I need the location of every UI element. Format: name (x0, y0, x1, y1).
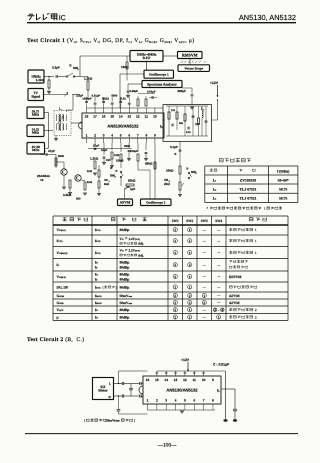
svg-text:80dBμ: 80dBμ (120, 315, 130, 319)
svg-text:3.3kΩ: 3.3kΩ (63, 193, 72, 197)
svg-text:1: 1 (264, 206, 266, 210)
svg-text:8: 8 (212, 399, 214, 403)
svg-text:10pF: 10pF (101, 149, 108, 152)
svg-text:68kΩ: 68kΩ (145, 162, 153, 166)
svg-text:+: + (44, 150, 46, 154)
svg-text:7: 7 (137, 134, 139, 138)
svg-text:1: 1 (189, 308, 191, 312)
svg-text:*: * (207, 207, 209, 211)
svg-text:16: 16 (102, 115, 106, 119)
svg-text:SCTL: SCTL (57, 239, 64, 243)
svg-text:3.9k: 3.9k (114, 154, 120, 157)
svg-text:ZV105329: ZV105329 (240, 178, 256, 182)
svg-text:2: 2 (156, 399, 158, 403)
svg-text:MHz: MHz (32, 131, 40, 135)
svg-text:4: 4 (221, 308, 223, 312)
svg-text:—: — (202, 228, 207, 232)
svg-text:Oscilloscope 2: Oscilloscope 2 (146, 200, 166, 204)
svg-text:(P-P): (P-P) (135, 238, 140, 241)
svg-text:2: 2 (189, 263, 191, 267)
svg-text:0.01: 0.01 (121, 98, 127, 101)
svg-text:2kΩ: 2kΩ (164, 182, 170, 186)
svg-text:AFVM: AFVM (229, 294, 240, 298)
svg-text:2: 2 (189, 301, 191, 305)
svg-text:—: — (216, 285, 221, 289)
svg-text:B.P.F: B.P.F (143, 56, 151, 60)
svg-text:DG, DP: DG, DP (57, 285, 70, 289)
svg-text:1: 1 (62, 108, 63, 111)
svg-text:3: 3 (103, 134, 105, 138)
svg-text:fC: fC (57, 263, 60, 267)
svg-text:Test Circuit 1 (VO, SCTL, VI,: Test Circuit 1 (VO, SCTL, VI, DG, DP, fC… (27, 38, 195, 44)
svg-text:50mVrms: 50mVrms (120, 301, 133, 305)
svg-text:9: 9 (212, 378, 214, 382)
svg-text:Adj.: Adj. (138, 253, 144, 257)
svg-text:80dBμ: 80dBμ (120, 285, 130, 289)
svg-text:): ) (116, 285, 117, 289)
svg-text:MHz: MHz (32, 113, 40, 117)
svg-text:VO(MAX): VO(MAX) (57, 251, 68, 255)
svg-text:—100—: —100— (157, 442, 177, 448)
svg-text:L: L (109, 381, 111, 385)
svg-text:①: ① (69, 63, 72, 67)
svg-text:5600: 5600 (111, 95, 117, 98)
svg-text:103: 103 (106, 159, 111, 162)
svg-text:1: 1 (189, 285, 191, 289)
svg-text:27μF: 27μF (93, 145, 100, 148)
svg-text:2: 2 (189, 294, 191, 298)
svg-text:3: 3 (203, 108, 204, 111)
svg-text:3: 3 (195, 172, 197, 175)
svg-text:80dBμ: 80dBμ (120, 272, 130, 276)
svg-text:IC: IC (59, 15, 66, 22)
svg-text:1: 1 (203, 294, 205, 298)
svg-text:1: 1 (255, 251, 257, 255)
svg-text:2: 2 (255, 308, 257, 312)
svg-text:RMSVM: RMSVM (182, 52, 198, 57)
svg-text:14: 14 (119, 115, 123, 119)
svg-text:50mVrms: 50mVrms (120, 294, 133, 298)
svg-text:1: 1 (189, 315, 191, 319)
svg-text:4: 4 (114, 175, 116, 178)
svg-text:58.75: 58.75 (279, 187, 287, 191)
svg-text:4: 4 (175, 399, 177, 403)
svg-text:TLJ 67321: TLJ 67321 (240, 197, 257, 201)
svg-text:Adj.: Adj. (138, 242, 144, 246)
svg-text:13: 13 (174, 378, 178, 382)
svg-text:TLJ 67321: TLJ 67321 (240, 187, 257, 191)
svg-text:1μF: 1μF (130, 187, 136, 191)
svg-text:×2: ×2 (40, 178, 44, 182)
svg-text:80dBμ: 80dBμ (120, 228, 130, 232)
svg-text:80dBμ: 80dBμ (120, 277, 130, 281)
svg-text:+12V: +12V (181, 358, 190, 362)
svg-text:2: 2 (255, 315, 257, 319)
svg-text:L2: L2 (213, 187, 217, 191)
svg-text:120: 120 (171, 109, 176, 112)
svg-text:AN5130, AN5132: AN5130, AN5132 (239, 13, 296, 22)
svg-text:C : 0.01μF: C : 0.01μF (213, 363, 229, 367)
svg-text:10kΩ: 10kΩ (166, 169, 174, 173)
svg-text:Meter: Meter (98, 389, 108, 393)
svg-text:1500pF: 1500pF (82, 98, 92, 101)
svg-text:AN5130/AN5132: AN5130/AN5132 (166, 388, 198, 393)
svg-text:fO: fO (95, 308, 98, 312)
svg-text:Oscilloscope 1: Oscilloscope 1 (149, 72, 169, 76)
svg-text:6: 6 (193, 399, 195, 403)
svg-text:1: 1 (174, 285, 176, 289)
svg-text:1: 1 (147, 399, 149, 403)
svg-text:): ) (134, 419, 135, 423)
svg-text:fS: fS (95, 277, 98, 281)
svg-text:15: 15 (155, 378, 159, 382)
svg-text:1.2kΩ: 1.2kΩ (90, 157, 99, 161)
svg-text:2: 2 (94, 134, 96, 138)
svg-text:10kΩ: 10kΩ (116, 159, 124, 163)
svg-text:330μF: 330μF (177, 89, 186, 93)
svg-text:fO: fO (95, 315, 98, 319)
svg-text:20mVrms: 20mVrms (106, 419, 120, 423)
svg-text:2: 2 (174, 308, 176, 312)
svg-text:AN5130/AN5132: AN5130/AN5132 (107, 123, 139, 128)
svg-text:Spectrum Analyzer: Spectrum Analyzer (147, 82, 177, 86)
svg-text:56k: 56k (179, 122, 184, 125)
svg-text:—: — (216, 228, 221, 232)
svg-text:16: 16 (146, 378, 150, 382)
svg-text:②: ② (186, 167, 189, 171)
svg-text:+12V: +12V (210, 81, 219, 85)
svg-text:1: 1 (189, 228, 191, 232)
svg-text:80dBμ: 80dBμ (120, 308, 130, 312)
svg-text:5: 5 (184, 399, 186, 403)
svg-text:f (MHz): f (MHz) (277, 170, 290, 174)
svg-text:fO: fO (95, 272, 98, 276)
svg-text:—: — (216, 294, 221, 298)
svg-text:2: 2 (174, 275, 176, 279)
svg-text:—: — (202, 285, 207, 289)
svg-text:IN: IN (218, 390, 221, 393)
svg-text:MHz: MHz (32, 148, 40, 152)
svg-text:—: — (202, 263, 207, 267)
svg-text:—: — (216, 251, 221, 255)
svg-text:H: H (109, 395, 112, 399)
svg-text:Vector Scope: Vector Scope (184, 66, 203, 70)
svg-text:0.01: 0.01 (186, 131, 191, 134)
svg-text:1kΩ: 1kΩ (87, 181, 93, 184)
svg-text:2: 2 (77, 68, 79, 71)
svg-text:11: 11 (193, 378, 197, 382)
svg-text:—: — (216, 263, 221, 267)
svg-text:82kΩ: 82kΩ (128, 179, 136, 183)
svg-text:5kΩ: 5kΩ (104, 183, 110, 186)
svg-text:~: ~ (218, 309, 220, 312)
svg-text:3.3μF: 3.3μF (52, 66, 60, 70)
svg-text:μ: μ (57, 315, 59, 319)
svg-text:2: 2 (174, 301, 176, 305)
svg-text:SW2: SW2 (186, 219, 193, 223)
svg-text:0.68μF: 0.68μF (130, 90, 139, 93)
svg-text:③: ③ (174, 152, 177, 156)
svg-text:fSTD: fSTD (95, 228, 101, 232)
svg-text:(: ( (103, 285, 104, 289)
svg-text:1: 1 (218, 315, 220, 319)
svg-text:VO: VO (120, 237, 124, 241)
svg-text:—: — (202, 251, 207, 255)
svg-text:—: — (202, 239, 207, 243)
svg-text:—: — (216, 301, 221, 305)
svg-text:12: 12 (183, 378, 187, 382)
svg-text:11: 11 (145, 115, 149, 119)
svg-text:1kΩ: 1kΩ (87, 170, 93, 173)
svg-text:1.2kΩ: 1.2kΩ (36, 78, 45, 82)
svg-text:17: 17 (93, 115, 97, 119)
svg-text:(P-P): (P-P) (135, 250, 140, 253)
svg-text:1: 1 (189, 239, 191, 243)
svg-text:80dBμ: 80dBμ (120, 261, 130, 265)
svg-text:VO(P-P): VO(P-P) (57, 228, 66, 232)
svg-text:4: 4 (111, 134, 113, 138)
svg-text:1: 1 (86, 134, 88, 138)
svg-text:Test Circuit 2 (B, C.): Test Circuit 2 (B, C.) (27, 337, 84, 343)
svg-text:13: 13 (127, 115, 131, 119)
svg-text:SW3: SW3 (201, 219, 208, 223)
svg-text:1: 1 (189, 275, 191, 279)
svg-text:VR: VR (104, 179, 108, 182)
svg-text:L1: L1 (213, 178, 217, 182)
svg-text:fMOD: fMOD (95, 294, 102, 298)
svg-text:fSTD: fSTD (95, 251, 101, 255)
svg-text:fO: fO (95, 261, 98, 265)
svg-text:1: 1 (189, 251, 191, 255)
svg-text:+: + (125, 187, 127, 191)
svg-text:SW4: SW4 (215, 219, 222, 223)
svg-text:AFVM: AFVM (229, 301, 240, 305)
svg-text:fSTD: fSTD (95, 239, 101, 243)
svg-text:9: 9 (154, 134, 156, 138)
svg-text:15: 15 (110, 115, 114, 119)
svg-text:100μF: 100μF (130, 150, 138, 153)
svg-text:1.2kΩ: 1.2kΩ (84, 77, 93, 81)
svg-text:14: 14 (164, 378, 168, 382)
svg-text:820Ω: 820Ω (102, 98, 109, 101)
svg-text:6: 6 (128, 134, 130, 138)
svg-text:2: 2 (203, 301, 205, 305)
svg-text:0.01μF: 0.01μF (92, 95, 101, 98)
svg-text:1: 1 (255, 228, 257, 232)
svg-text:—: — (202, 308, 207, 312)
svg-text:2: 2 (174, 294, 176, 298)
svg-text:47μF: 47μF (48, 149, 55, 153)
svg-text:VAFC: VAFC (57, 308, 64, 312)
svg-text:2: 2 (174, 263, 176, 267)
svg-text:1: 1 (174, 251, 176, 255)
svg-text:12: 12 (136, 115, 140, 119)
svg-text:7: 7 (203, 399, 205, 403)
svg-text:1: 1 (174, 228, 176, 232)
svg-text:—: — (216, 275, 221, 279)
svg-text:5: 5 (120, 134, 122, 138)
svg-text:18: 18 (85, 115, 89, 119)
svg-text:RFSVM: RFSVM (229, 275, 242, 279)
svg-text:L3: L3 (213, 197, 217, 201)
svg-text:⑦: ⑦ (115, 169, 118, 173)
svg-text:GNOR: GNOR (57, 294, 65, 298)
svg-text:1: 1 (174, 239, 176, 243)
svg-text:7μF: 7μF (195, 123, 200, 126)
svg-text:3300: 3300 (124, 145, 130, 148)
svg-text:fMOD: fMOD (95, 301, 102, 305)
svg-text:300: 300 (76, 198, 81, 201)
svg-text:2: 2 (214, 308, 216, 312)
svg-text:AFVM: AFVM (120, 201, 131, 205)
svg-text:fSTD: fSTD (95, 285, 101, 289)
svg-text:0.01μF: 0.01μF (147, 91, 156, 94)
svg-text:GSUB: GSUB (57, 301, 65, 305)
svg-text:SW1: SW1 (172, 219, 179, 223)
svg-text:2: 2 (174, 315, 176, 319)
svg-text:VO: VO (120, 249, 124, 253)
svg-text:1: 1 (255, 239, 257, 243)
svg-text:8: 8 (145, 134, 147, 138)
svg-text:VO(H.F): VO(H.F) (57, 275, 67, 279)
svg-text:—: — (202, 315, 207, 319)
svg-text:—: — (202, 275, 207, 279)
svg-text:58.75: 58.75 (279, 197, 287, 201)
svg-text:50~68*: 50~68* (278, 178, 289, 182)
svg-text:fS: fS (95, 266, 98, 270)
svg-text:10: 10 (153, 115, 157, 119)
svg-text:(: ( (84, 419, 85, 423)
svg-text:5600: 5600 (58, 155, 64, 158)
svg-text:3: 3 (165, 399, 167, 403)
svg-text:80dBμ: 80dBμ (120, 266, 130, 270)
svg-text:0.1μF: 0.1μF (170, 145, 178, 149)
svg-text:—: — (216, 239, 221, 243)
svg-text:10: 10 (202, 378, 206, 382)
svg-text:Signal: Signal (31, 94, 40, 98)
